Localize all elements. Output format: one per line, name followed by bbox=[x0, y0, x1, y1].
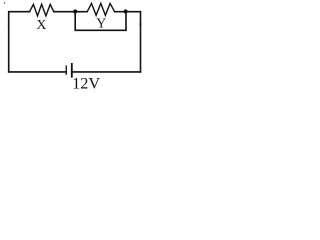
stray ink speck bbox=[4, 2, 5, 3]
wire parallel bypass branch bbox=[75, 12, 126, 31]
resistor Y bbox=[87, 3, 114, 15]
wire bottom-left to battery bbox=[9, 71, 67, 73]
svg-text:12V: 12V bbox=[72, 74, 100, 93]
wire X to node A bbox=[54, 11, 75, 13]
node A junction dot bbox=[73, 9, 77, 13]
wire left side bbox=[8, 24, 10, 72]
wire Y to node B bbox=[115, 11, 126, 13]
wire node B to top-right corner bbox=[126, 12, 141, 25]
resistor X bbox=[30, 4, 54, 16]
battery B1 negative plate (short) bbox=[65, 65, 67, 75]
wire node A to resistor Y bbox=[75, 11, 87, 13]
wire battery to bottom-right bbox=[73, 71, 141, 73]
svg-text:X: X bbox=[36, 17, 46, 32]
wire top-left segment bbox=[9, 12, 30, 25]
battery B1 positive plate (long) bbox=[71, 63, 73, 78]
svg-text:Y: Y bbox=[96, 16, 106, 31]
node B junction dot bbox=[124, 9, 128, 13]
wire right side bbox=[140, 24, 142, 72]
